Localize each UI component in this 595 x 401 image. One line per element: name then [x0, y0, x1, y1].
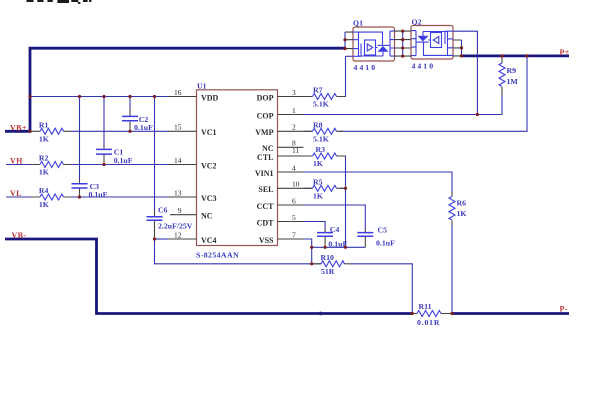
svg-text:15: 15: [174, 123, 182, 132]
wire VIN1 to R6: [304, 172, 453, 314]
transistor Q2: [411, 18, 453, 71]
svg-text:P+: P+: [560, 48, 570, 57]
junction Q1 source stub mid: [343, 38, 346, 41]
wire SEL to R5: [304, 187, 346, 189]
svg-text:R4: R4: [39, 186, 49, 195]
svg-text:11: 11: [292, 146, 299, 155]
wire VC4 row: [155, 238, 169, 240]
resistor R3: [304, 145, 346, 168]
svg-text:7: 7: [292, 230, 296, 239]
wire Q1 gate entry: [346, 55, 354, 57]
svg-text:4: 4: [292, 163, 296, 172]
svg-text:Q1: Q1: [353, 19, 363, 28]
wire VB+ thick rail to Q1: [5, 47, 346, 133]
svg-text:Q2: Q2: [412, 18, 422, 27]
junction COP wire / R9 / Q2 gate riser: [476, 113, 479, 116]
svg-text:1K: 1K: [39, 168, 49, 177]
svg-text:VC2: VC2: [201, 161, 217, 170]
svg-text:R7: R7: [313, 86, 323, 95]
wire CDT to C4: [304, 222, 326, 230]
svg-text:R6: R6: [457, 199, 467, 208]
junction VC4 row / C6: [153, 237, 156, 240]
svg-text:R8: R8: [313, 120, 323, 129]
resistor R4: [31, 186, 71, 209]
capacitor C2: [122, 109, 153, 132]
junction Q1-Q2 drain link 1: [401, 30, 404, 33]
junction VSS pin riser / cap common row: [310, 246, 313, 249]
resistor R7: [304, 86, 346, 109]
svg-text:VL: VL: [10, 189, 22, 198]
svg-text:VH: VH: [10, 157, 23, 166]
capacitor C5: [357, 225, 395, 247]
junction Q1-Q2 drain link 3: [401, 46, 404, 49]
resistor R9 vertical: [499, 56, 518, 95]
wire C2 vertical branch: [129, 97, 131, 110]
svg-text:1K: 1K: [39, 200, 49, 209]
svg-text:2.2uF/25V: 2.2uF/25V: [158, 222, 193, 231]
svg-text:12: 12: [174, 230, 182, 239]
junction VDD rail / C2 branch: [128, 95, 131, 98]
svg-text:R5: R5: [313, 177, 323, 186]
svg-text:VIN1: VIN1: [255, 169, 274, 178]
junction C4 / cap common row: [324, 246, 327, 249]
resistor R5: [304, 177, 346, 200]
junction P- rail / R11 right / R6: [450, 312, 453, 315]
Q1 source stubs and vertical: [345, 32, 353, 49]
junction Q2 source stub bottom / P+ rail: [460, 54, 463, 57]
resistor R11: [412, 302, 452, 327]
svg-text:CDT: CDT: [257, 218, 275, 227]
junction VDD rail / C6 branch: [153, 95, 156, 98]
junction P+ rail / VMP riser: [525, 54, 528, 57]
svg-text:1K: 1K: [313, 191, 323, 200]
svg-text:R1: R1: [39, 120, 49, 129]
svg-text:CCT: CCT: [257, 202, 275, 211]
junction CTL riser / cap common row: [344, 246, 347, 249]
svg-text:2: 2: [292, 123, 296, 132]
svg-text:0.1uF: 0.1uF: [114, 156, 133, 165]
svg-text:VC1: VC1: [201, 128, 217, 137]
capacitor C1: [96, 146, 133, 165]
junction VC2 row / C1: [102, 163, 105, 166]
svg-text:R10: R10: [321, 253, 335, 262]
resistor R8: [304, 120, 343, 143]
wire VC1 row: [71, 130, 169, 132]
svg-text:51R: 51R: [321, 267, 335, 276]
wire VB- thick rail bottom: [5, 238, 569, 314]
svg-text:1K: 1K: [39, 134, 49, 143]
junction Q2 source stub mid: [460, 46, 463, 49]
svg-text:14: 14: [174, 156, 182, 165]
svg-text:S-8254AAN: S-8254AAN: [196, 251, 239, 260]
svg-text:VB-: VB-: [12, 231, 27, 240]
wire VL row: [6, 196, 169, 198]
transistor Q1: [353, 19, 395, 72]
junction VC1 row / C2: [128, 130, 131, 133]
svg-text:16: 16: [174, 88, 182, 97]
capacitor C3: [72, 180, 108, 199]
svg-text:R3: R3: [316, 145, 326, 154]
junction P- rail / R11 left / R10 branch: [411, 312, 414, 315]
junction VDD rail / C3 branch: [78, 95, 81, 98]
svg-text:SEL: SEL: [258, 185, 273, 194]
svg-text:C6: C6: [158, 206, 168, 215]
junction Q1-Q2 drain link 2: [401, 38, 404, 41]
svg-text:C5: C5: [378, 225, 388, 234]
junction VB+ / R1: [28, 130, 31, 133]
svg-text:VMP: VMP: [255, 128, 273, 137]
IC pin stubs left: [169, 97, 197, 240]
IC U1 S-8254AAN body: [196, 82, 278, 260]
junction P+ rail / R9: [500, 54, 503, 57]
wire R9 branch: [477, 95, 502, 115]
svg-text:1M: 1M: [507, 77, 519, 86]
junction VDD rail / C1 branch: [102, 95, 105, 98]
wire VSS bottom rail: [155, 239, 413, 314]
svg-text:0.01R: 0.01R: [417, 318, 440, 327]
Q2 source stubs and vertical: [453, 40, 462, 56]
wire CTL to R3: [304, 156, 346, 247]
resistor R10: [312, 253, 351, 276]
svg-text:5.1K: 5.1K: [313, 100, 329, 109]
svg-text:R9: R9: [507, 66, 517, 75]
junction Q1 source stub bottom / P+ rail: [343, 47, 346, 50]
svg-text:6: 6: [292, 196, 296, 205]
capacitor C6: [147, 206, 193, 240]
wire CCT to C5: [304, 205, 366, 229]
svg-text:VDD: VDD: [201, 93, 219, 102]
wire P+ thick rail right: [460, 55, 569, 58]
junction VDD rail / VB+ riser: [28, 95, 31, 98]
IC pin stubs right: [278, 97, 305, 240]
svg-text:1: 1: [292, 106, 296, 115]
wire C6 vertical branch: [154, 97, 156, 211]
svg-text:NC: NC: [201, 212, 213, 221]
svg-text:NC: NC: [262, 144, 274, 153]
svg-text:0.1uF: 0.1uF: [376, 239, 395, 248]
junction Q1-Q2 drain link 4: [401, 55, 404, 58]
svg-text:0.1uF: 0.1uF: [89, 190, 108, 199]
cutoff title text fragments: [27, 0, 92, 4]
svg-text:0.1uF: 0.1uF: [134, 123, 153, 132]
wire VMP R8 to P+: [304, 56, 527, 131]
junction VSS pin riser / VSS rail: [310, 262, 313, 265]
svg-text:1K: 1K: [313, 159, 323, 168]
IC pin names: [201, 93, 274, 245]
wire C1 vertical branch: [103, 97, 105, 147]
svg-text:VB+: VB+: [10, 123, 27, 132]
svg-text:DOP: DOP: [257, 93, 274, 102]
svg-text:R2: R2: [39, 154, 49, 163]
svg-text:4410: 4410: [354, 63, 378, 72]
junction CTL riser / R5: [344, 187, 347, 190]
svg-text:C4: C4: [330, 225, 340, 234]
wire C3 vertical branch: [79, 97, 81, 181]
svg-text:5: 5: [292, 213, 296, 222]
svg-text:5.1K: 5.1K: [313, 134, 329, 143]
svg-text:U1: U1: [197, 82, 207, 91]
wire VH row: [6, 164, 169, 166]
resistor R2: [31, 154, 71, 177]
junction artifact on P- rail: [319, 312, 323, 316]
svg-text:13: 13: [174, 188, 182, 197]
junction VC3 row / C3: [78, 195, 81, 198]
svg-text:VC4: VC4: [201, 236, 217, 245]
wire VDD rail: [30, 96, 169, 98]
IC pin numbers: [174, 88, 300, 240]
svg-text:VSS: VSS: [259, 236, 274, 245]
resistor R6 vertical: [449, 192, 466, 225]
Q1-Q2 drain links: [395, 31, 412, 56]
resistor R1: [31, 120, 71, 143]
svg-text:3: 3: [292, 88, 296, 97]
svg-text:CTL: CTL: [257, 153, 273, 162]
svg-text:9: 9: [178, 206, 182, 215]
capacitor C4: [317, 225, 347, 249]
wire DOP to R7: [304, 56, 346, 96]
wire COP row: [304, 31, 503, 114]
svg-text:R11: R11: [419, 302, 432, 311]
wire VSS pin branch: [304, 239, 312, 264]
svg-text:VC3: VC3: [201, 194, 217, 203]
svg-text:1K: 1K: [457, 209, 467, 218]
wire CX common row: [312, 246, 366, 248]
svg-text:P-: P-: [560, 304, 568, 313]
svg-text:10: 10: [292, 180, 300, 189]
svg-text:4410: 4410: [412, 62, 436, 71]
svg-text:COP: COP: [257, 111, 274, 120]
